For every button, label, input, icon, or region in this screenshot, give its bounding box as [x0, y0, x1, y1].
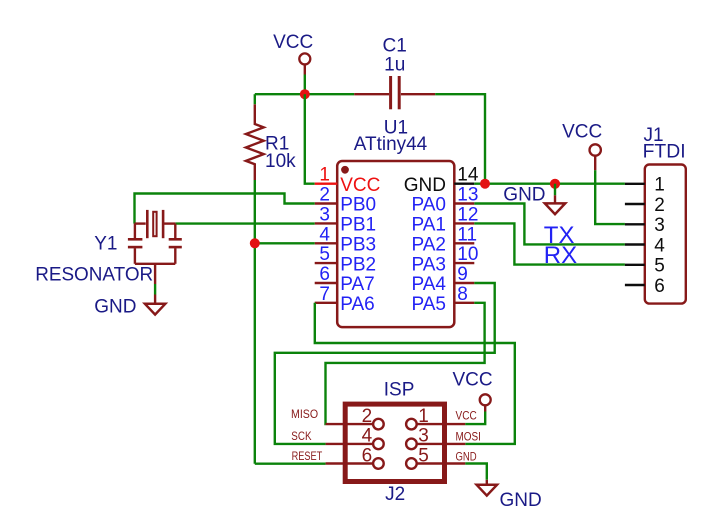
svg-text:6: 6 [654, 276, 665, 297]
power symbol VCC (ISP) [452, 369, 492, 411]
U1 pin 1 (VCC) stub + number + name [315, 165, 381, 196]
svg-text:VCC: VCC [456, 410, 477, 422]
svg-text:RESONATOR: RESONATOR [35, 265, 153, 286]
svg-text:ISP: ISP [384, 379, 415, 400]
svg-text:4: 4 [654, 235, 665, 256]
U1 pin 6 (PA7) stub + number + name [315, 264, 375, 295]
wire resonator right lead to pin 3 [175, 222, 314, 224]
junction VCC rail [300, 89, 310, 99]
svg-text:10k: 10k [265, 151, 296, 172]
junction GND tap [550, 179, 560, 189]
svg-text:VCC: VCC [562, 122, 602, 143]
wire resonator to ground [154, 284, 156, 295]
svg-text:PB2: PB2 [340, 254, 376, 275]
U1 pin 2 (PB0) stub + number + name [315, 185, 376, 216]
wire ISP GND [465, 464, 487, 480]
svg-text:Y1: Y1 [94, 234, 117, 255]
U1 pin 8 (PA5) stub + number + name [411, 284, 474, 315]
svg-text:PA2: PA2 [411, 235, 446, 256]
svg-text:VCC: VCC [452, 369, 492, 390]
J1 pin 2 stub + number [625, 195, 665, 216]
svg-text:GND: GND [456, 451, 477, 463]
J1 pin 3 stub + number [625, 215, 665, 236]
wire SCK: pin 9 (PA4) to ISP pin 4 [275, 283, 495, 444]
U1 pin 10 (PA3) stub + number + name [411, 244, 478, 275]
svg-text:4: 4 [319, 224, 330, 245]
capacitor C1 [354, 36, 435, 110]
svg-text:FTDI: FTDI [643, 141, 686, 162]
ground symbol (ISP) [477, 480, 542, 511]
svg-text:PB0: PB0 [340, 195, 376, 216]
J2 pin 1 (VCC) right stub, circle, number, label [406, 406, 477, 430]
svg-text:RX: RX [544, 242, 577, 269]
svg-text:5: 5 [654, 256, 665, 277]
wire VCC junction down to pin 1 [305, 94, 315, 184]
wire C1 right to pin 14 junction [435, 94, 485, 184]
wire GND tap down [554, 184, 556, 196]
svg-text:GND: GND [404, 175, 446, 196]
J1 pin 6 stub + number [625, 276, 665, 297]
svg-text:MOSI: MOSI [456, 432, 481, 444]
svg-text:5: 5 [418, 445, 429, 466]
svg-text:PA0: PA0 [411, 195, 446, 216]
svg-text:2: 2 [654, 195, 665, 216]
J2 pin 4 (SCK) left stub, circle, number, label [291, 426, 383, 450]
J1 pin 4 stub + number [625, 235, 665, 256]
svg-text:6: 6 [362, 445, 373, 466]
J1 pin 5 stub + number [625, 256, 665, 277]
wire RESET to ISP pin 6 [255, 463, 326, 465]
wire MISO: pin 8 (PA5) to ISP pin 2 [326, 303, 485, 424]
resonator Y1 [35, 210, 182, 286]
svg-text:PA1: PA1 [411, 215, 446, 236]
svg-text:1u: 1u [384, 55, 405, 76]
svg-text:2: 2 [362, 406, 373, 427]
svg-text:PA4: PA4 [411, 274, 446, 295]
J2 pin 3 (MOSI) right stub, circle, number, label [406, 426, 481, 450]
svg-text:10: 10 [457, 244, 478, 265]
svg-text:PA3: PA3 [411, 254, 446, 275]
svg-text:VCC: VCC [340, 175, 380, 196]
svg-text:SCK: SCK [291, 431, 311, 443]
svg-text:PB1: PB1 [340, 215, 376, 236]
svg-text:3: 3 [418, 426, 429, 447]
J2 pin 2 (MISO) left stub, circle, number, label [291, 406, 384, 430]
junction RESET net [250, 238, 260, 248]
svg-text:7: 7 [319, 284, 330, 305]
connector J1 body [645, 165, 686, 304]
U1 pin 7 (PA6) stub + number + name [315, 284, 375, 315]
svg-text:PA7: PA7 [340, 274, 375, 295]
U1 pin 5 (PB2) stub + number + name [315, 244, 376, 275]
svg-text:J2: J2 [385, 484, 405, 505]
svg-text:8: 8 [457, 284, 468, 305]
wire TX: pin 13 to J1 pin 4 [474, 204, 625, 245]
connector J2 body [345, 404, 444, 481]
connector J1 FTDI labels [643, 125, 686, 162]
svg-text:GND: GND [503, 184, 545, 205]
power symbol VCC (top) [273, 32, 313, 74]
svg-text:9: 9 [457, 264, 468, 285]
svg-text:11: 11 [457, 224, 477, 245]
U1 pin 11 (PA2) stub + number + name [411, 224, 477, 255]
svg-text:PA5: PA5 [411, 294, 446, 315]
svg-text:1: 1 [418, 406, 429, 427]
IC U1 pin 1 marker dot [341, 166, 349, 174]
wire VCC to J1 pin 3 [595, 170, 625, 224]
wire pin 14 to J1 pin 1 (GND net) [474, 182, 625, 184]
ground symbol (resonator) [94, 295, 165, 318]
wire VCC symbol to junction [304, 75, 306, 95]
U1 pin 14 (GND) stub + number + name [404, 165, 479, 196]
wire ISP VCC [465, 412, 485, 425]
U1 pin 4 (PB3) stub + number + name [315, 224, 376, 255]
svg-text:ATtiny44: ATtiny44 [354, 134, 428, 155]
wire R1 top [254, 94, 256, 104]
svg-text:PA6: PA6 [340, 294, 375, 315]
svg-text:GND: GND [500, 490, 542, 511]
wire RESET junction to pin 4 (PB3) [255, 242, 315, 244]
svg-text:3: 3 [654, 215, 665, 236]
IC U1 body [337, 161, 454, 327]
wire VCC rail horizontal (R1 top to C1 left) [255, 93, 354, 95]
resistor R1 [246, 104, 296, 180]
svg-text:VCC: VCC [273, 32, 313, 53]
wire resonator left lead up and over to pin 2 [135, 194, 315, 224]
IC U1 ATtiny44 reference and value labels [354, 118, 428, 155]
svg-text:GND: GND [94, 297, 136, 318]
U1 pin 9 (PA4) stub + number + name [411, 264, 474, 295]
U1 pin 12 (PA1) stub + number + name [411, 204, 478, 235]
svg-text:4: 4 [362, 426, 373, 447]
J2 pin 6 (RESET) left stub, circle, number, label [292, 445, 384, 469]
svg-text:6: 6 [319, 264, 330, 285]
U1 pin 3 (PB1) stub + number + name [315, 204, 376, 235]
wire MOSI: pin 7 (PA6) to ISP pin 3 [315, 303, 515, 444]
J2 pin 5 (GND) right stub, circle, number, label [406, 445, 477, 469]
svg-text:2: 2 [319, 185, 330, 206]
wire R1 bottom / RESET net vertical [254, 180, 256, 464]
junction pin14/C1 [480, 179, 490, 189]
wire RX: pin 12 to J1 pin 5 [474, 223, 625, 264]
svg-text:3: 3 [319, 204, 330, 225]
svg-text:RESET: RESET [292, 451, 323, 463]
J1 pin 1 stub + number [625, 175, 665, 196]
power symbol VCC (near J1) [562, 122, 602, 171]
svg-text:5: 5 [319, 244, 330, 265]
svg-text:C1: C1 [383, 36, 407, 57]
U1 pin 13 (PA0) stub + number + name [411, 185, 478, 216]
svg-text:PB3: PB3 [340, 235, 376, 256]
svg-text:1: 1 [319, 165, 330, 186]
svg-text:1: 1 [654, 175, 665, 196]
svg-text:MISO: MISO [291, 409, 318, 421]
ground symbol (near J1) [503, 184, 565, 214]
